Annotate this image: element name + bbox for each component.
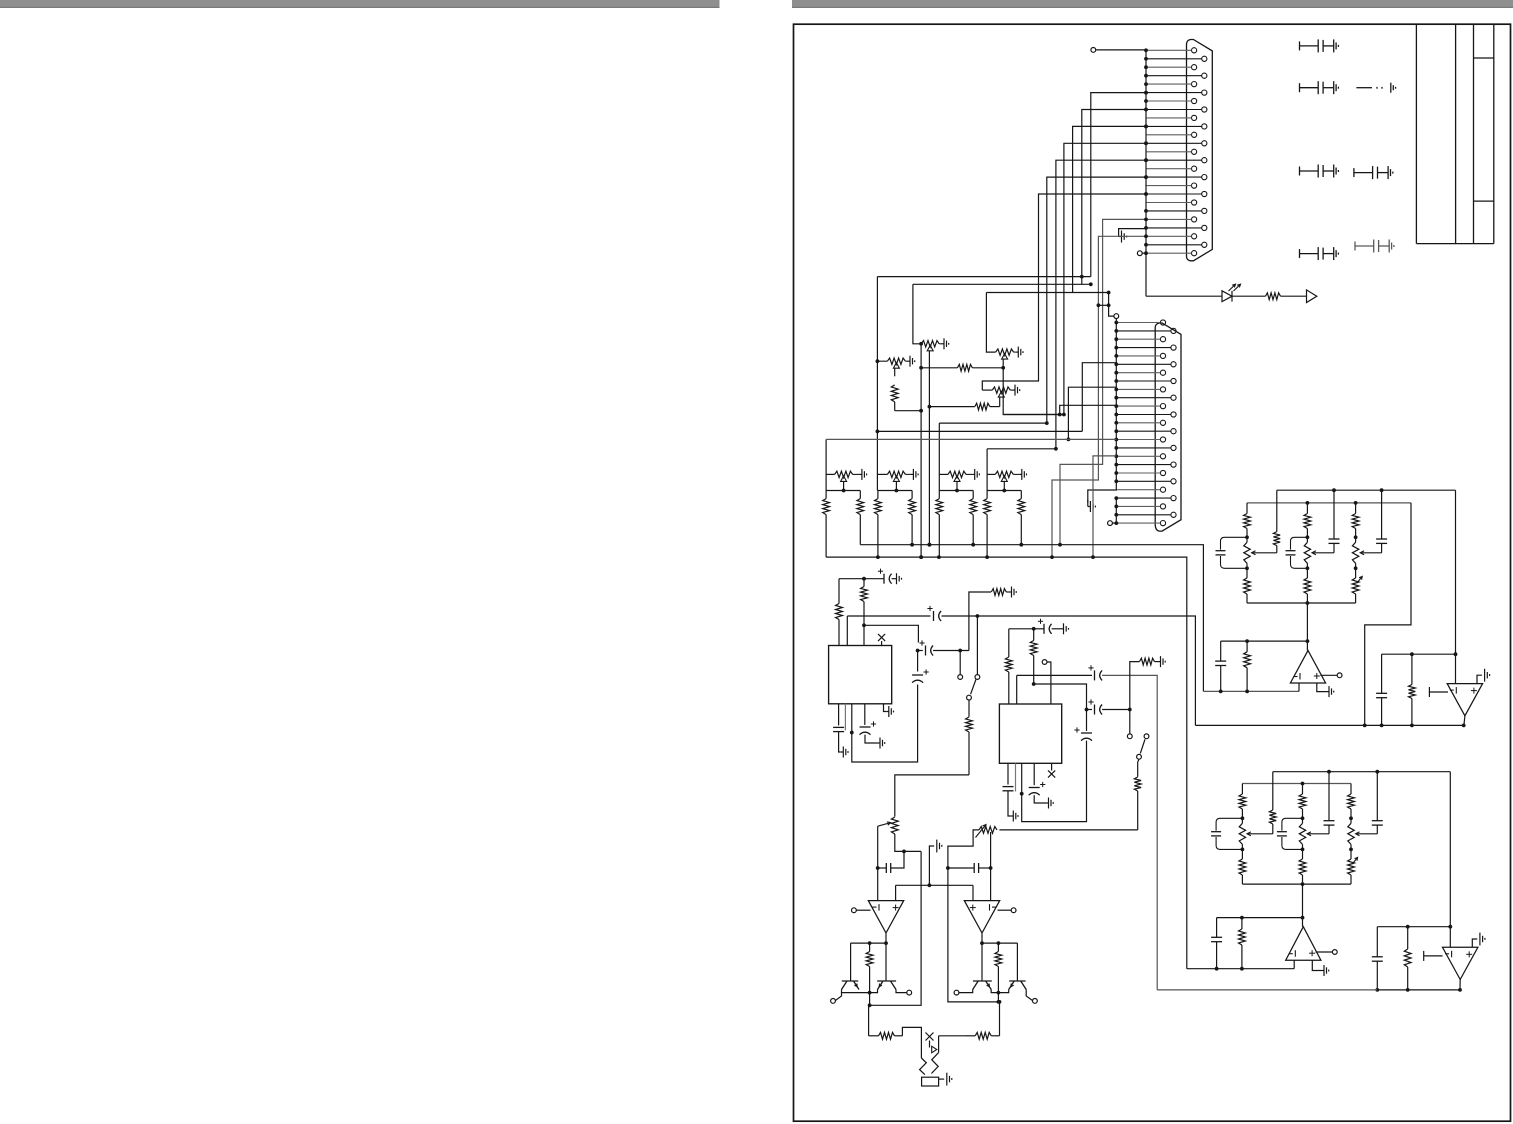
resistor R41 [1244,641,1251,691]
network1 resistor Ra1 [1244,503,1251,537]
wire VR5 left [826,473,835,475]
wire U6 chain down to Q3 [981,943,983,981]
wire block 1 top rail [878,490,912,492]
wire block 2 top rail [939,490,973,492]
bundle wire from CN1 pin 19 to trimmer VR4 [982,194,1146,390]
network2 bottom rail [1242,883,1351,885]
electrolytic C31 with ground [1034,628,1044,630]
page header bar left [0,0,720,8]
capacitor C51 [1216,918,1218,938]
ground under C35 [1011,811,1018,822]
X mark no-connect IC2 [1051,763,1053,770]
node wire row B [913,283,1091,285]
op-amp U2 [1447,684,1482,716]
wire left output node down [868,1005,870,1036]
wire VR1 left riser [913,284,921,344]
bypass capacitors C909 C910 [1300,247,1339,260]
electrolytic C25 on loop [912,672,925,685]
resistor R61 [866,943,873,993]
dual diode pair [920,1053,939,1075]
resistor R901 [1266,293,1307,300]
wire to switch pole A [959,651,961,675]
buffer U901 [1307,290,1317,303]
electrolytic C34 vertical [1086,710,1088,731]
op-amp U4 [1443,947,1478,979]
U2 plus to ground [1477,675,1482,683]
wire VR3 wiper node down rail 414 [1003,368,1064,415]
wire VR1 wiper down [928,351,930,545]
rail wire 414 [1003,414,1064,416]
wire VR4 left end [982,389,992,391]
trimmer VR6 [887,471,905,477]
resistor pair block 1 left [875,491,882,558]
wire VR2 bottom to node [895,410,921,412]
transistor Q4 [1009,981,1026,990]
U3 plus pin to ground [1312,960,1321,970]
IC2 bottom pin gray [1015,763,1017,791]
bypass capacitors C901 C902 [1300,39,1339,52]
wire top left of IC1 [839,578,864,580]
U3 minus pin [1293,960,1295,969]
network2 rail1 down to U4 [1449,772,1451,948]
VR10 wiper down to cap node [990,832,992,868]
resistor R51 [1239,918,1246,969]
bypass capacitors C903 C904 [1300,81,1339,94]
CN2 pin wires to bus [1116,323,1160,524]
op-amp U5 headphone left [868,901,903,933]
rail wire 448 to block D [987,448,1056,450]
wire IC2 pin riser to gray line [1016,675,1018,704]
wire block 3 riser [986,449,988,491]
U4 open minus stub [1424,951,1443,961]
wire down to Q4 [1016,943,1018,981]
bypass capacitors C905 C906 [1300,165,1339,178]
U2 apex to bus [1464,716,1465,726]
resistor R11 vertical under VR2 [894,368,896,376]
Q1 left terminal [831,999,836,1004]
CN2 exit wire to rail 431 [1082,363,1116,432]
network2 resistor Ra1 [1239,784,1246,819]
wire switch chain to trimmer VR9 [895,775,969,817]
rail wire 431 to block B [877,430,1082,432]
wire 917 rail [1217,917,1303,919]
resistor pair block 3 left [984,491,991,558]
wire R63 to center [939,1035,965,1037]
gray line IC2 output [1017,674,1092,676]
Q4 right terminal [1033,999,1038,1004]
wire U5 minus chain down to Q2 [885,943,887,981]
wire down to Q1 [850,943,852,981]
ground of plus rail [929,846,934,885]
ladder link wire [1098,304,1108,306]
U5 input terminal [852,908,857,913]
resistor R42 [1409,654,1416,725]
resistor R63 [965,1032,1000,1039]
wire block 3 top rail [987,490,1021,492]
IC1 record amplifier [829,646,892,704]
U4 apex to bus [1459,980,1461,990]
resistor R62 [995,943,1002,993]
connector CN2 DB25 outline [1155,323,1181,531]
network1 bottom rheostat Rc3 [1352,568,1359,603]
network1 second rail [1247,502,1411,504]
thermal couple box [922,1077,939,1086]
minus input rail op-amp U3 [1187,968,1294,970]
wire LED to R901 [1232,295,1266,297]
wire node to switch pole B [976,616,978,674]
network1 trimmer P1 [1244,537,1250,568]
CN2 exit wire to rail 414 [1060,405,1117,414]
ground under C36 [1046,798,1053,809]
network1 trimmer P3 [1352,537,1358,568]
U6 plus pin riser [972,885,974,900]
network2 trimmer P3 [1348,818,1354,849]
wire block 0 top rail [826,490,860,492]
network1 cap Cc2 [1381,490,1383,539]
network1 trimmer P2 [1304,537,1310,568]
capacitor C42 [1381,654,1383,693]
diode arrow center [929,1041,931,1048]
resistor pair block 0 right [857,491,864,545]
bundle wire from CN1 pin 23 [1052,236,1146,557]
CN2 bus wire upper [1114,314,1119,319]
network1 bottom resistor Rc2 [1304,568,1311,603]
U1 plus pin to ground [1317,683,1327,692]
resistor pair block 0 left [823,491,830,558]
trimmer VR3 [996,349,1014,355]
resistor pair block 3 right [1018,491,1025,545]
CN1 shield ground [1119,229,1146,237]
U6 input terminal [1011,908,1016,913]
wire node 625 to switch riser [864,625,918,642]
wire VR9 wiper down to minus [877,826,879,900]
CN1 pin wires to bus [1146,50,1192,253]
network2 cap Cc1 [1328,772,1330,821]
ground of center network [939,1078,945,1080]
wire 926 rail right [1377,926,1450,928]
network2 bottom resistor Rc2 [1299,849,1306,884]
wire VR6 wiper down [895,481,897,490]
wire IC1 pin to long line [846,616,848,646]
wire VR9 bottom to node [895,834,921,851]
ground after R23 [1009,587,1016,598]
electrolytic C24 [864,704,866,725]
bundle wire from CN1 pin 14 [1056,160,1146,449]
resistor pair block 2 right [970,491,977,545]
node IC1 out [916,649,920,653]
resistor R34 under switch [1138,759,1139,777]
resistor R22 [836,579,843,646]
connector CN1 DB25 outline [1187,40,1213,261]
node wire row A [877,276,1090,278]
wire right output node down [999,1002,1001,1036]
LED D901 [1222,291,1232,302]
CN2 ground [1087,500,1089,507]
wire vertical VR1 left chain [920,344,922,557]
IC1 bottom pin to ground [884,704,887,712]
network2 offset resistor Rb [1269,772,1276,834]
wire VR6 left [878,473,888,475]
bundle wire from CN1 pin 16 [1047,177,1146,423]
network2 bottom resistor Rc1 [1239,849,1246,884]
electrolytic C11 with ground [864,578,884,580]
resistor pair block 1 right [909,491,916,545]
network2 cap Cc2 [1376,772,1378,821]
network2 resistor Ra3 [1348,784,1355,819]
wire CN1 bus to LED [1146,295,1222,297]
U5 apex node [885,933,887,943]
ground under C23 [841,747,848,758]
U2 open minus stub [1429,687,1448,697]
resistor pair block 2 left [936,491,943,558]
network1 rail1 down to U2 [1455,490,1457,683]
wire 943 rail right [982,942,1017,944]
page header bar right [792,0,1513,8]
IC2 bottom pin cap C35 [1007,763,1009,784]
plus rail between U5 U6 [896,884,973,886]
bundle wire from CN1 pin 12 [1064,143,1146,414]
minus input rail op-amp U1 [1203,690,1299,692]
wire block 0 riser [825,439,827,490]
network2 trimmer P1 [1239,818,1245,849]
capacitor C41 [1220,641,1222,661]
connector CN2 pins 1-25 [1160,320,1176,526]
wire R13 to VR4 wiper [999,397,1001,406]
resistor R32 [1030,629,1037,684]
trimmer VR4 [992,387,1010,393]
wire U6 minus pin [990,868,992,901]
resistor R33 to ground [1130,662,1140,710]
trimmer VR8 [995,471,1013,477]
wire IC1 pin riser [863,625,865,645]
transistor Q3 [973,981,992,990]
network1 resistor Ra3 [1352,503,1359,537]
gray rail 439 to CN2 [826,438,1116,440]
long wire IC1 output line [847,616,1195,725]
CN1 bus wire [1145,50,1147,296]
VR10 left end step down [948,830,1000,1002]
wire node 684 right [1034,684,1087,710]
trimmer VR10 horizontal [979,827,997,834]
U6 apex node [981,933,983,943]
resistor R24 under switch [968,700,970,717]
network1 offset resistor Rb [1273,490,1280,553]
capacitor C52 [1376,927,1378,957]
X mark no-connect IC1 [878,634,885,641]
U1 minus pin [1298,683,1300,691]
ground under C24 [878,738,885,749]
jumper and capacitor row [1356,83,1395,93]
feedback cap right [948,867,974,869]
rail wire 423 to block C [939,422,1047,424]
bundle wire from CN1 pin 6 [1091,93,1146,277]
wire VR7 wiper down [956,481,958,490]
wire VR5 wiper down [843,481,845,490]
network2 second rail [1242,783,1351,785]
network1 bottom resistor Rc1 [1244,568,1251,603]
Q3 Q4 emitter node [991,990,998,993]
resistor R23 to ground [969,592,991,651]
resistor R31 [1005,629,1012,704]
resistor R52 [1404,927,1411,990]
title block table [1416,24,1493,243]
Q2 right terminal [907,990,912,995]
wire net1 tap to op-amp [1306,603,1308,650]
transistor Q2 [877,981,896,990]
IC1 bottom loop wire [852,651,918,763]
op-amp U1 [1290,650,1325,683]
bypass capacitors C907 C908 [1354,166,1393,179]
wire VR3 left riser [986,293,995,353]
bottom bus U3 U4 [1377,989,1460,991]
wire center right branch [938,1036,940,1053]
wire top of IC2 [1009,628,1034,630]
network2 bottom rheostat Rc3 [1348,849,1355,884]
wire VR2 riser down to block B [876,361,878,490]
op-amp U3 [1286,927,1321,961]
IC2 bottom pin node [1021,763,1023,793]
X mark center [926,1033,934,1041]
U4 plus to ground [1472,939,1477,947]
long feedback wire left channel [869,851,922,1005]
resistor R64 [869,1032,903,1039]
wire VR7 left [939,473,948,475]
network1 bottom rail [1247,602,1356,604]
switch SW1-b [1129,710,1131,734]
lower bus wire [826,557,1187,969]
trimmer VR9 vertical [891,817,898,834]
network1 rail2 step down to bus [1365,503,1411,726]
CN2 exit wire to lower bus [1093,456,1116,557]
network1 resistor Ra2 [1304,503,1311,537]
CN2 bus wire lower and terminal [1115,498,1117,523]
CN1 pin1 input terminal [1091,48,1096,53]
U3 output terminal [1316,951,1333,953]
trimmer VR2 [887,358,905,364]
trimmer VR5 [835,471,853,477]
wire net2 tap to op-amp [1302,884,1304,927]
network2 trimmer P2 [1299,818,1305,849]
wire 943 rail left [851,942,886,944]
feed bus under U2 [1195,724,1463,726]
network2 top rail [1273,771,1451,773]
switch SW1-a [958,675,963,680]
IC1 bottom pin cap C23 [838,704,840,726]
IC2 playback amplifier [999,704,1061,763]
wire VR2 left riser [877,277,887,362]
CN1 pin25 terminal [1137,251,1142,256]
op-amp U6 headphone right [964,901,999,933]
electrolytic C32 on gray line [1095,670,1103,680]
U1 output terminal [1320,674,1337,676]
resistor R12 horizontal [921,364,1003,371]
terminal above IC2 [1042,660,1047,665]
feedback cap left [878,867,887,869]
electrolytic C36 [1033,763,1035,785]
bundle wire from CN1 pin 8 [1082,110,1146,285]
line 709 with electrolytic C33 [1087,709,1093,711]
connector CN1 pins 1-25 [1192,48,1207,256]
CN2 exit wire to gray rail [1068,387,1116,439]
electrolytic C22 on line [931,610,942,623]
U5 plus pin riser [895,885,897,900]
bundle wire from CN1 pin 21 [1060,219,1146,544]
bundle wire from CN1 pin 10 [1073,126,1146,292]
schematic border frame [794,24,1511,1121]
trimmer VR1 [921,341,939,347]
resistor R21 [861,579,868,626]
wire R12 right to VR3 wiper [1002,359,1004,368]
network2 resistor Ra2 [1299,784,1306,819]
wire 641 rail [1221,640,1308,642]
Q3 left terminal [954,990,959,995]
upper bus wire [860,545,1203,692]
trimmer VR7 [948,471,966,477]
network1 top rail [1277,489,1456,491]
resistor R13 horizontal [929,403,999,410]
bias network step [902,1027,921,1058]
wire VR8 wiper down [1003,481,1005,490]
wire VR8 left [987,473,995,475]
wire block 2 riser [938,423,940,490]
electrolytic C26 to switch [918,650,923,652]
bypass capacitors C911 C912 [1355,240,1394,253]
wire switch chain to trimmer VR10 [999,829,1137,831]
Q1 Q2 emitter node [842,990,870,993]
gray wire from IC2 to bottom bus [1157,989,1377,991]
IC1 bottom pin gray [844,704,846,731]
transistor Q1 [842,981,860,990]
wire 654 rail [1382,653,1456,655]
wire row C to CN2 top terminal [1109,293,1114,317]
node wire row C [986,292,1108,294]
network1 cap Cc1 [1333,490,1335,539]
